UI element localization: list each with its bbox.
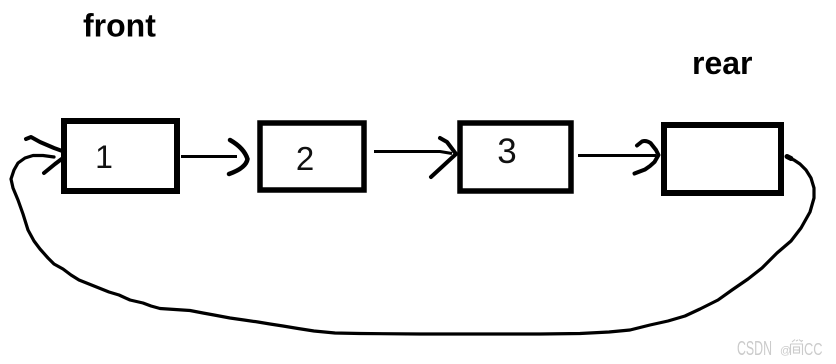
wire arrow 1 to 2 : shaft [181,155,237,158]
svg-text:CSDN: CSDN [737,338,772,360]
circular link wire: big loop from rear box back to front box [11,156,814,335]
node 4 box (rear, empty) [664,125,781,193]
svg-text:front: front [83,8,156,44]
wire arrow 2 to 3 : shaft [374,152,452,154]
svg-text:rear: rear [692,45,753,81]
circular link arrowhead upper barb at front box [26,137,65,152]
wire arrow 3 to 4 : shaft [578,154,656,157]
watermark CSDN @简CC [737,338,823,360]
wire arrow 1 to 2 : arrowhead [229,140,248,174]
wire arrow 3 to 4 : arrowhead [635,141,659,174]
node 3 box [460,123,571,191]
svg-text:1: 1 [95,139,113,175]
svg-text:3: 3 [497,132,516,171]
node 2 box [260,123,364,190]
circular link wire: start nub at rear box [787,157,791,159]
svg-text:CC: CC [804,339,823,359]
circular link arrowhead lower barb at front box [44,158,63,173]
svg-text:@: @ [780,345,791,357]
wire arrow 2 to 3 : arrowhead [431,138,456,177]
svg-text:2: 2 [296,140,314,177]
node 1 box [64,121,177,191]
